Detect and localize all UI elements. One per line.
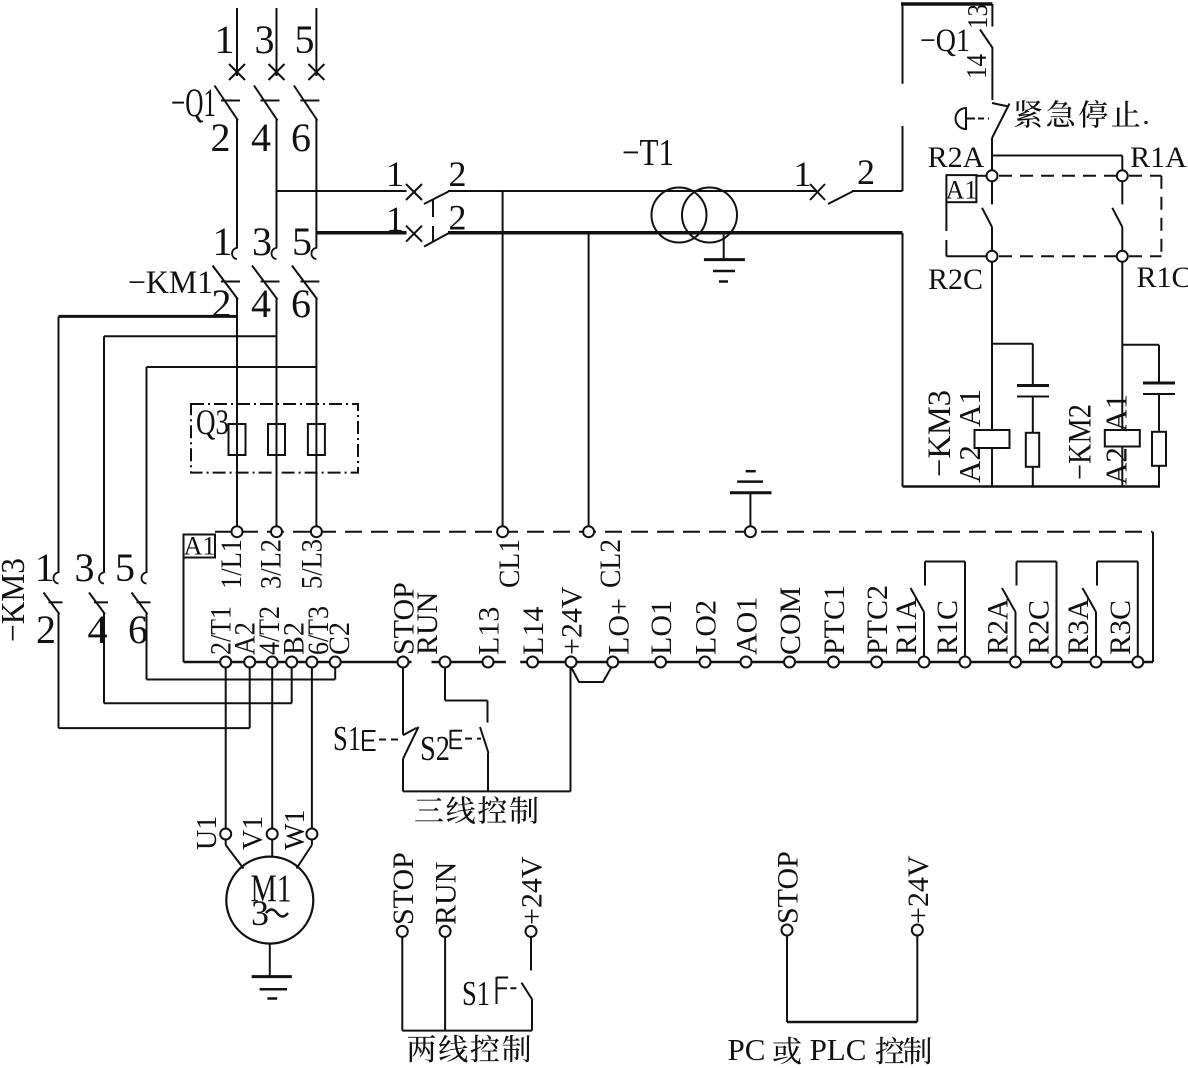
svg-text:1: 1 — [215, 17, 235, 62]
capacitor of KM3 snubber — [1017, 384, 1049, 387]
motor ground — [269, 944, 271, 977]
PLC control terminal STOP — [782, 925, 793, 936]
PLC control terminal +24V — [912, 925, 923, 936]
wire top edge to Q1 aux contact — [901, 2, 992, 6]
svg-text:1: 1 — [386, 199, 404, 239]
wire L2 control line y=232.7 from Q1 pole3 — [316, 231, 406, 235]
terminal CL1 — [497, 526, 508, 537]
svg-text:−KM2: −KM2 — [1063, 404, 1099, 480]
wire STOP down — [402, 667, 404, 735]
terminal AO1 — [741, 657, 752, 668]
wire A1 box to R2C — [945, 202, 947, 231]
svg-text:STOP: STOP — [387, 852, 420, 925]
wire L1 control line y=191 from Q1 pole2 — [277, 190, 407, 192]
two-wire control terminal +24V — [526, 926, 537, 937]
terminal PTC2 — [871, 657, 882, 668]
terminal LO2 — [700, 657, 711, 668]
terminal 3/L2 — [271, 526, 282, 537]
soft starter dashed top edge — [215, 531, 1153, 533]
svg-text:R2C: R2C — [1023, 600, 1056, 655]
label emergency stop (Chinese) — [1015, 100, 1042, 128]
resistor of KM2 snubber — [1152, 432, 1166, 466]
terminal L14 — [527, 657, 538, 668]
svg-text:PC: PC — [728, 1032, 766, 1067]
svg-text:−Q1: −Q1 — [171, 80, 216, 125]
svg-text:−KM3: −KM3 — [0, 558, 32, 642]
wire KM1 pole2 tap to KM3 pole2 — [104, 335, 277, 337]
contactor -KM1 pole 1 — [232, 248, 237, 259]
svg-text:2: 2 — [449, 154, 467, 194]
earth terminal on starter — [745, 526, 756, 537]
svg-text:2: 2 — [36, 607, 56, 652]
svg-text:6: 6 — [291, 115, 311, 160]
soft starter designation box A1 — [184, 535, 216, 558]
svg-text:R3C: R3C — [1104, 600, 1137, 655]
svg-text:PLC: PLC — [810, 1032, 867, 1067]
PLC control bottom rail — [787, 1021, 917, 1024]
bypass contactor -KM3 pole 3 — [142, 573, 147, 584]
svg-text:A2: A2 — [952, 445, 987, 483]
svg-text:1: 1 — [794, 154, 812, 194]
svg-text:R2A: R2A — [928, 141, 985, 174]
wire 6/T3 to W1 — [311, 667, 313, 829]
svg-text:3/L2: 3/L2 — [255, 539, 288, 589]
svg-text:R1A: R1A — [890, 598, 923, 655]
contactor -KM1 pole 3 — [311, 248, 316, 259]
wire R2A to R1A — [992, 155, 1122, 157]
two-wire control bottom rail — [402, 1030, 532, 1032]
svg-text:6: 6 — [128, 607, 148, 652]
node R2C — [987, 251, 998, 262]
wire R1C down to KM2 coil — [1121, 261, 1123, 430]
svg-text:5: 5 — [115, 545, 135, 590]
svg-text:1/L1: 1/L1 — [215, 539, 248, 589]
svg-text:S1: S1 — [462, 974, 490, 1013]
ground symbol above starter — [749, 493, 751, 527]
svg-text:6: 6 — [291, 281, 311, 326]
resistor of KM3 snubber — [1026, 433, 1039, 467]
bypass contactor -KM3 pole 1 — [54, 573, 59, 584]
circuit breaker -Q1 pole 2 (terminals 3-4) — [276, 8, 278, 76]
svg-text:LO2: LO2 — [690, 600, 723, 655]
relay contact R2A-R2C — [1015, 612, 1017, 656]
svg-text:1: 1 — [386, 154, 404, 194]
svg-text:3: 3 — [75, 545, 95, 590]
soft starter internal relay box A1 — [946, 175, 976, 202]
soft starter bottom edge — [184, 661, 412, 664]
svg-text:AO1: AO1 — [731, 597, 764, 655]
svg-text:A2: A2 — [1098, 447, 1133, 485]
emergency stop mushroom head — [956, 108, 967, 129]
internal contact R2A-R2C — [991, 181, 993, 205]
svg-text:LO1: LO1 — [645, 600, 678, 655]
pushbutton S2 (NO) — [480, 727, 489, 753]
svg-text:CL1: CL1 — [493, 539, 526, 588]
svg-text:+24V: +24V — [902, 855, 935, 924]
RC snubber of KM2: wire — [1122, 344, 1159, 346]
wire KM1 pole1 tap to KM3 pole1 — [59, 315, 238, 318]
svg-text:5: 5 — [292, 219, 312, 264]
internal contact R1A-R1C — [1121, 181, 1123, 205]
terminal 6/T3 — [306, 657, 317, 668]
relay contact R1A-R1C — [923, 612, 925, 656]
terminal L13 — [483, 657, 494, 668]
svg-text:A1: A1 — [184, 532, 216, 561]
svg-text:A1: A1 — [946, 176, 978, 205]
node R1C — [1117, 251, 1128, 262]
wire RUN down — [444, 937, 446, 1031]
S1 actuator — [362, 731, 364, 751]
wire CL2 to line L2 — [588, 233, 590, 527]
svg-text:R1C: R1C — [931, 600, 964, 655]
svg-text:L13: L13 — [473, 607, 506, 655]
circuit breaker -Q1 pole 3 (terminals 5-6) — [315, 8, 317, 76]
wire +24V down — [530, 937, 532, 970]
wire R2C down to KM3 coil — [991, 261, 993, 430]
wires into motor — [225, 840, 227, 846]
svg-text:4: 4 — [251, 115, 271, 160]
svg-text:A1: A1 — [1098, 394, 1133, 432]
Q1 auxiliary contact 13-14 — [991, 4, 993, 27]
pushbutton S1 (NO) two-wire — [522, 983, 533, 1000]
terminal R2C — [1051, 657, 1062, 668]
svg-text:A1: A1 — [952, 389, 987, 427]
svg-text:L14: L14 — [517, 607, 550, 655]
ground at transformer secondary — [723, 234, 725, 260]
three-wire control bottom rail — [403, 790, 571, 792]
contactor -KM1 pole 2 — [272, 248, 277, 259]
fuse block Q3 dash-dot enclosure — [191, 404, 358, 473]
motor M1 circle — [226, 857, 313, 944]
fuse-switch 1-2 on line L1 — [406, 184, 422, 200]
terminal +24V — [566, 657, 577, 668]
svg-text:U1: U1 — [192, 816, 223, 850]
bypass contactor -KM3 pole 2 — [99, 573, 104, 584]
terminal R1A — [919, 657, 930, 668]
contactor coil -KM3 — [975, 430, 1010, 448]
svg-text:R3A: R3A — [1062, 598, 1095, 655]
wire 4/T2 to V1 — [271, 667, 273, 829]
terminal B2 — [286, 657, 297, 668]
dashed link box R2A-R1A-R1C-R2C — [999, 175, 1116, 177]
svg-text:−T1: −T1 — [622, 132, 674, 174]
svg-text:4: 4 — [251, 281, 271, 326]
relay contact R3A-R3C — [1095, 612, 1097, 656]
terminal R3C — [1132, 657, 1143, 668]
svg-text:.: . — [1142, 98, 1150, 131]
svg-text:+24V: +24V — [556, 586, 589, 655]
svg-text:5: 5 — [295, 17, 315, 62]
svg-text:5/L3: 5/L3 — [296, 539, 329, 589]
S1 actuator two-wire — [496, 977, 498, 1004]
svg-text:3: 3 — [252, 219, 272, 264]
emergency stop NC contact — [992, 103, 1009, 107]
svg-text:S2: S2 — [420, 729, 450, 768]
svg-text:−KM1: −KM1 — [128, 265, 213, 301]
wire PLC STOP down — [786, 936, 788, 1023]
soft starter left edge — [183, 558, 185, 663]
wire KM3 pole2 to terminal B2 — [104, 702, 292, 704]
node R2A — [987, 170, 998, 181]
wire KM3 pole1 to terminal A2 — [59, 727, 250, 729]
transformer -T1 — [652, 188, 707, 243]
fuse Q3 pole2 — [268, 424, 285, 455]
svg-text:STOP: STOP — [772, 851, 805, 924]
wire right box left edge x=902.5 — [902, 4, 904, 84]
svg-text:LO+: LO+ — [603, 598, 636, 655]
svg-text:2: 2 — [212, 281, 232, 326]
terminal COM — [784, 657, 795, 668]
terminal 5/L3 — [311, 526, 322, 537]
fuse Q3 pole1 — [229, 424, 246, 455]
svg-text:+24V: +24V — [516, 856, 549, 925]
wire 2/T1 to U1 — [225, 667, 227, 829]
terminal RUN — [440, 657, 451, 668]
motor terminal U1 — [220, 829, 231, 840]
mechanical link between fuse-switches — [432, 199, 434, 217]
svg-text:1: 1 — [213, 219, 233, 264]
terminal LO1 — [655, 657, 666, 668]
wire bottom edge of control box — [903, 485, 1161, 488]
motor terminal W1 — [306, 829, 317, 840]
svg-text:RUN: RUN — [411, 592, 444, 655]
pushbutton S1 (NC) — [403, 728, 417, 736]
fuse-switch 1-2 on line L2 — [406, 226, 422, 242]
jumper +24V to LO+ — [571, 667, 612, 682]
wire KM1 pole3 tap to KM3 pole3 — [147, 366, 317, 368]
svg-text:RUN: RUN — [430, 862, 463, 925]
terminal PTC1 — [828, 657, 839, 668]
terminal R3A — [1091, 657, 1102, 668]
node R1A — [1117, 170, 1128, 181]
two-wire control terminal RUN — [440, 926, 451, 937]
soft starter right edge — [1152, 532, 1154, 662]
terminal C2 — [330, 657, 341, 668]
svg-text:COM: COM — [774, 587, 807, 655]
svg-text:PTC1: PTC1 — [818, 585, 851, 655]
svg-text:R1C: R1C — [1136, 261, 1188, 294]
svg-text:C2: C2 — [323, 622, 356, 655]
wire CL1 to line L1 — [502, 191, 504, 527]
S2 actuator — [450, 730, 452, 749]
wire RUN down to S2 — [444, 667, 446, 701]
svg-text:Q3: Q3 — [196, 402, 229, 442]
svg-text:S1: S1 — [333, 719, 361, 758]
circuit breaker -Q1 pole 1 (terminals 1-2) — [236, 8, 238, 76]
svg-text:3: 3 — [255, 17, 275, 62]
switch 1-2 on line L1 right of T1 — [810, 184, 825, 200]
terminal 4/T2 — [267, 657, 278, 668]
svg-text:4: 4 — [88, 607, 108, 652]
svg-text:W1: W1 — [280, 810, 311, 850]
terminal R2A — [1010, 657, 1021, 668]
terminal CL2 — [583, 526, 594, 537]
motor terminal V1 — [267, 829, 278, 840]
terminal LO+ — [607, 657, 618, 668]
terminal 1/L1 — [232, 526, 243, 537]
terminal R1C — [960, 657, 971, 668]
two-wire control terminal STOP — [397, 926, 408, 937]
svg-text:R1A: R1A — [1130, 141, 1187, 174]
RC snubber of KM3: wire — [992, 343, 1033, 345]
svg-text:V1: V1 — [238, 816, 269, 850]
svg-text:R2A: R2A — [982, 598, 1015, 655]
svg-text:2: 2 — [857, 152, 875, 192]
contactor coil -KM2 — [1105, 430, 1140, 447]
svg-text:R2C: R2C — [928, 263, 983, 296]
capacitor of KM2 snubber — [1143, 382, 1175, 385]
terminal 2/T1 — [220, 657, 231, 668]
svg-text:CL2: CL2 — [594, 539, 627, 588]
label three-wire control (Chinese) — [415, 798, 443, 822]
svg-text:−Q1: −Q1 — [920, 23, 970, 59]
label two-wire control (Chinese) — [408, 1035, 435, 1062]
svg-text:1: 1 — [35, 545, 55, 590]
wire KM3 pole3 to terminal C2 — [147, 679, 336, 681]
wire STOP down — [401, 937, 403, 1031]
fuse Q3 pole3 — [308, 424, 325, 455]
terminal STOP — [398, 657, 409, 668]
wire PLC +24V down — [916, 936, 918, 1023]
terminal A2 — [244, 657, 255, 668]
